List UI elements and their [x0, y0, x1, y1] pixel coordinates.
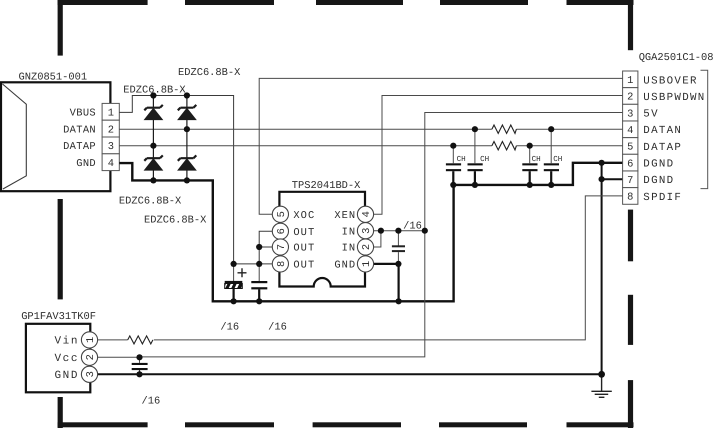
ground symbol: [591, 374, 611, 397]
wire GND TPS pin1: [374, 264, 399, 301]
resistor R1 on DATAN: [492, 125, 517, 133]
wire GND long to ground: [98, 373, 602, 375]
svg-text:QGA2501C1-08: QGA2501C1-08: [639, 52, 714, 64]
junction dot ground: [598, 371, 605, 378]
capacitor C8 on Vcc: [132, 357, 148, 374]
svg-text:XEN: XEN: [334, 210, 356, 222]
capacitor C3 on IN net: [392, 231, 405, 264]
svg-text:USBPWDWN: USBPWDWN: [643, 92, 705, 104]
svg-text:3: 3: [361, 228, 373, 234]
IC U2 body: [26, 324, 90, 393]
junction dots TPS area: [231, 228, 428, 305]
svg-text:2: 2: [627, 92, 633, 104]
connector J1 pin boxes: [102, 103, 119, 170]
svg-text:Vin: Vin: [55, 336, 79, 348]
frame dashed border right: [628, 0, 633, 428]
svg-text:6: 6: [276, 228, 288, 234]
svg-text:2: 2: [361, 244, 373, 250]
connector J2 pin numbers: [627, 75, 633, 204]
connector J2 pin boxes: [623, 71, 638, 204]
IC U1 pin names: [293, 210, 315, 272]
svg-text:CH: CH: [457, 155, 466, 164]
wire SPDIF J2 pin8 to R3: [154, 196, 623, 340]
capacitor C1 electrolytic: [225, 264, 243, 301]
svg-text:4: 4: [627, 125, 633, 137]
svg-text:VBUS: VBUS: [70, 108, 96, 120]
svg-text:5V: 5V: [643, 109, 659, 121]
svg-text:Vcc: Vcc: [55, 353, 79, 365]
wire IN net TPS pin3: [374, 230, 425, 232]
junction dots diodes: [150, 92, 190, 183]
diode D1 zener (VBUS to DATAP): [144, 96, 163, 146]
frame dashed border top: [58, 0, 634, 5]
resistor R2 on DATAP: [492, 142, 517, 150]
svg-text:GND: GND: [76, 158, 96, 170]
diode D2 zener (VBUS to DATAN): [178, 96, 197, 130]
capacitor C6 CH: [522, 146, 537, 185]
svg-text:8: 8: [276, 261, 288, 267]
svg-text:2: 2: [85, 354, 97, 360]
junction dots data lines: [450, 126, 554, 188]
wire IN TPS pin2 tie: [374, 231, 381, 247]
wire GND thick from J1 pin4: [119, 163, 622, 301]
svg-text:/16: /16: [268, 322, 287, 334]
IC U2 pin numbers (rotated): [85, 337, 97, 378]
svg-text:5: 5: [276, 211, 288, 217]
capacitor C1 electrolytic plus sign: [238, 268, 247, 277]
diode D4 zener (DATAN to GND): [178, 129, 197, 180]
connector J1 GNZ0851-001 body: [1, 82, 110, 191]
IC U1 pin circles left: [272, 206, 288, 272]
svg-text:OUT: OUT: [293, 260, 315, 272]
IC U1 pin numbers left (rotated): [276, 211, 288, 267]
svg-text:/16: /16: [403, 220, 422, 232]
capacitor C5 CH: [468, 129, 483, 185]
svg-text:IN: IN: [342, 243, 357, 255]
capacitor C2 ceramic: [251, 264, 267, 301]
wire DATAN J1 pin2 to J2 pin4: [119, 128, 622, 130]
connector J1 USB shell trapezoid: [3, 84, 27, 189]
IC U2 pin names: [55, 336, 79, 383]
wire VBUS from J1 pin1 up to bus: [119, 96, 233, 264]
svg-text:EDZC6.8B-X: EDZC6.8B-X: [178, 67, 241, 79]
svg-text:USBOVER: USBOVER: [643, 75, 697, 87]
connector J1 pin numbers: [108, 108, 114, 170]
svg-text:GND: GND: [334, 260, 356, 272]
svg-text:DGND: DGND: [643, 159, 674, 171]
svg-text:DATAP: DATAP: [63, 141, 96, 153]
frame dashed border bottom: [58, 422, 634, 427]
wire DATAP J1 pin3 to J2 pin5: [119, 145, 622, 147]
capacitor C4 CH: [446, 146, 461, 185]
svg-text:SPDIF: SPDIF: [643, 192, 682, 204]
svg-text:IN: IN: [342, 226, 357, 238]
svg-text:/16: /16: [142, 396, 161, 408]
IC U1 body: [279, 192, 365, 287]
svg-text:CH: CH: [480, 155, 489, 164]
svg-text:3: 3: [85, 371, 97, 377]
svg-text:EDZC6.8B-X: EDZC6.8B-X: [144, 214, 207, 226]
svg-text:CH: CH: [553, 155, 562, 164]
IC U2 pin circles: [81, 332, 97, 383]
svg-text:DGND: DGND: [643, 175, 674, 187]
svg-text:1: 1: [361, 261, 373, 267]
junction dots GP1: [136, 354, 142, 377]
labels CH: [457, 155, 563, 164]
connector J2 pin names: [643, 75, 705, 204]
svg-text:DATAN: DATAN: [643, 125, 682, 137]
wire Vin to resistor R3: [98, 339, 128, 341]
svg-text:XOC: XOC: [293, 210, 315, 222]
wire OUT tie pins 6,7,8: [234, 231, 273, 264]
connector J2 bracket: [701, 70, 708, 188]
resistor R3 on Vin: [128, 336, 153, 344]
svg-text:1: 1: [85, 337, 97, 343]
svg-text:OUT: OUT: [293, 243, 315, 255]
svg-text:4: 4: [361, 211, 373, 217]
svg-text:1: 1: [108, 108, 114, 120]
svg-text:GND: GND: [55, 370, 79, 382]
svg-text:OUT: OUT: [293, 227, 315, 239]
svg-text:7: 7: [627, 175, 633, 187]
svg-text:/16: /16: [220, 322, 239, 334]
svg-text:4: 4: [108, 158, 114, 170]
wire XOC to USBOVER: [259, 78, 622, 214]
svg-text:EDZC6.8B-X: EDZC6.8B-X: [119, 195, 182, 207]
capacitor C7 CH: [544, 129, 559, 185]
svg-text:3: 3: [627, 108, 633, 120]
diode D3 zener (DATAP to GND): [144, 146, 163, 181]
svg-text:DATAN: DATAN: [63, 124, 96, 136]
IC U1 pin circles right: [357, 206, 373, 272]
wire Vcc: [98, 356, 140, 358]
svg-text:CH: CH: [532, 155, 541, 164]
svg-text:GP1FAV31TK0F: GP1FAV31TK0F: [21, 311, 96, 323]
junction dots DGND: [599, 160, 605, 183]
wire DGND pin7 tie and ground riser: [602, 163, 623, 374]
wire XEN to USBPWDWN: [373, 96, 622, 215]
svg-text:7: 7: [276, 244, 288, 250]
wire 5V J2 pin3 riser to IN and Vcc: [140, 113, 623, 357]
svg-text:DATAP: DATAP: [643, 142, 682, 154]
IC U1 pin numbers right (rotated): [361, 211, 373, 267]
svg-text:3: 3: [108, 141, 114, 153]
svg-text:2: 2: [108, 124, 114, 136]
svg-text:5: 5: [627, 142, 633, 154]
svg-text:1: 1: [627, 75, 633, 87]
svg-text:6: 6: [627, 158, 633, 170]
connector J1 pin names: [63, 108, 96, 170]
svg-text:TPS2041BD-X: TPS2041BD-X: [292, 180, 361, 192]
frame dashed border left: [58, 0, 63, 428]
svg-text:8: 8: [627, 192, 633, 204]
